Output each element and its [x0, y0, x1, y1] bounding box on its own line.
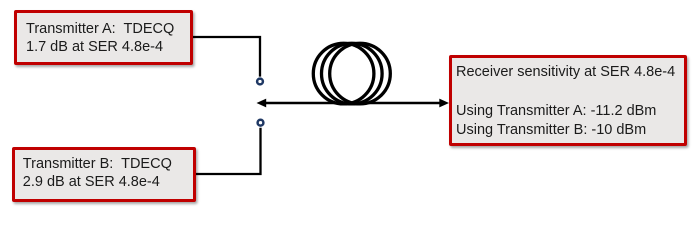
receiver box — [449, 55, 687, 146]
switch node B (lower port) — [258, 120, 264, 126]
transmitter A box — [14, 10, 193, 65]
fiber coil loop 3 — [330, 43, 391, 104]
fiber link line (double-headed arrow shaft) — [264, 102, 441, 104]
left arrowhead — [257, 99, 267, 108]
transmitter B box — [12, 147, 196, 202]
switch node A (upper port) — [257, 79, 263, 85]
fiber coil loop 1 — [313, 43, 374, 104]
right arrowhead — [439, 99, 449, 108]
wire from transmitter B to switch node — [196, 128, 261, 174]
wire from transmitter A to switch node — [193, 37, 260, 77]
fiber coil loop 2 — [322, 43, 383, 104]
